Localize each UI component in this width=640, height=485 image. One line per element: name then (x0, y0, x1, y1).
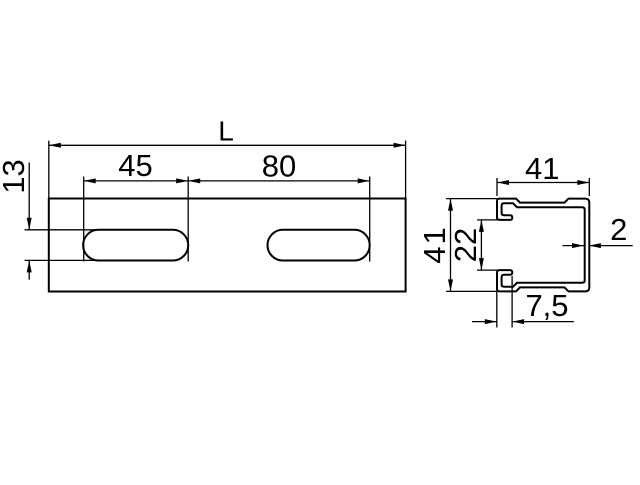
label 7,5 (525, 288, 568, 323)
label 2 (610, 212, 627, 247)
channel cross-section profile (497, 199, 589, 292)
svg-text:13: 13 (0, 159, 31, 193)
dimension 22 (477, 220, 499, 270)
svg-text:22: 22 (448, 228, 483, 262)
label 13 (0, 159, 31, 193)
svg-text:7,5: 7,5 (525, 288, 568, 323)
dimension 41 left (446, 199, 497, 292)
dimension 13 (25, 163, 101, 280)
label 22 (448, 228, 483, 262)
svg-text:2: 2 (610, 212, 627, 247)
svg-text:80: 80 (262, 148, 296, 183)
label 80 (262, 148, 296, 183)
label 41 top (525, 151, 559, 186)
dimension 41 top (497, 178, 589, 196)
label L (218, 116, 234, 147)
dimension 80 (188, 177, 370, 262)
dimension 45 (84, 177, 189, 262)
label 41 left (417, 225, 452, 263)
dimension 2 (563, 243, 633, 248)
slot 2 (268, 230, 370, 261)
svg-text:45: 45 (118, 148, 152, 183)
svg-text:41: 41 (417, 225, 452, 263)
side view outline (49, 199, 406, 292)
slot 1 (83, 230, 188, 261)
dimension 7,5 (472, 276, 574, 328)
svg-text:41: 41 (525, 151, 559, 186)
dimension L (49, 141, 406, 199)
svg-text:L: L (218, 116, 234, 147)
label 45 (118, 148, 152, 183)
